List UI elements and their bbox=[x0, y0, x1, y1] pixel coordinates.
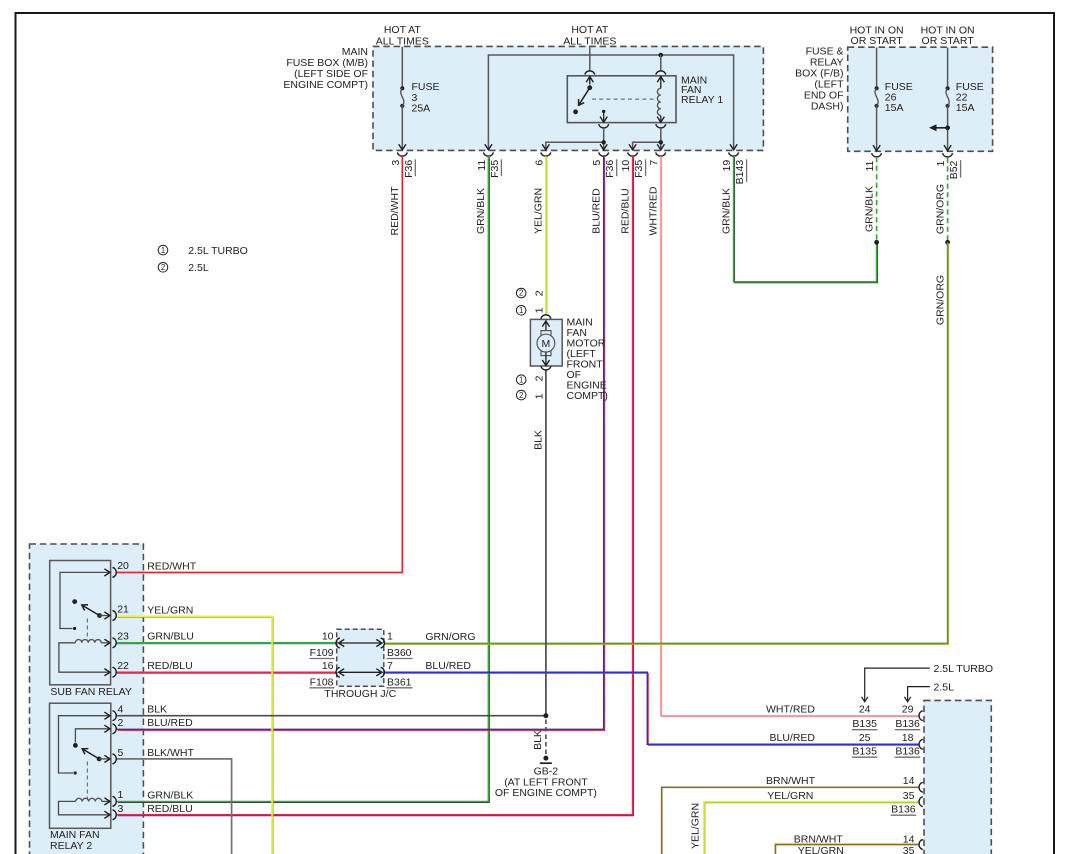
svg-text:2: 2 bbox=[534, 290, 546, 296]
wire RED/BLU pin10 to relay2 pin3 bbox=[117, 156, 634, 816]
svg-text:BLK: BLK bbox=[532, 430, 544, 450]
svg-text:RED/BLU: RED/BLU bbox=[147, 660, 193, 672]
J/C row1 double arrow bbox=[339, 639, 382, 646]
junction pins 10/7 bbox=[659, 140, 663, 144]
wire GRN/BLK pin11 to relay2 pin1 bbox=[117, 156, 490, 802]
right connector cup pin 35 bbox=[919, 797, 923, 807]
connector F36 label bbox=[403, 159, 416, 178]
svg-text:F36: F36 bbox=[403, 160, 415, 178]
svg-text:YEL/GRN: YEL/GRN bbox=[689, 803, 701, 849]
svg-text:B136: B136 bbox=[895, 746, 920, 758]
svg-text:11: 11 bbox=[864, 160, 876, 171]
right connector cup pin 14 bbox=[919, 782, 923, 792]
svg-text:RED/BLU: RED/BLU bbox=[147, 803, 193, 815]
wire GRN/BLK dashed below fuse 26 bbox=[876, 157, 878, 242]
svg-text:F35: F35 bbox=[633, 160, 645, 178]
svg-text:F36: F36 bbox=[604, 160, 616, 178]
sub fan relay wire labels bbox=[147, 560, 197, 672]
svg-text:F35: F35 bbox=[489, 160, 501, 178]
svg-text:35: 35 bbox=[903, 790, 915, 802]
svg-text:B136: B136 bbox=[895, 718, 920, 730]
wire RED/WHT pin3 to sub fan relay pin20 bbox=[117, 156, 402, 572]
svg-text:RED/BLU: RED/BLU bbox=[619, 188, 631, 234]
svg-text:RELAY 2: RELAY 2 bbox=[50, 840, 92, 852]
junction fuse22 branch bbox=[945, 125, 950, 130]
svg-text:GRN/BLU: GRN/BLU bbox=[147, 631, 194, 643]
svg-text:B52: B52 bbox=[948, 160, 960, 179]
wire BRN/WHT to connector pin14 bbox=[662, 787, 919, 854]
svg-text:HOT AT: HOT AT bbox=[571, 24, 609, 36]
fuse 3 25A symbol bbox=[400, 86, 404, 108]
wire GRN/BLU sub fan relay pin23 to J/C bbox=[117, 643, 336, 644]
label MAIN FUSE BOX (M/B) bbox=[283, 46, 368, 91]
svg-text:GRN/ORG: GRN/ORG bbox=[934, 184, 946, 234]
svg-text:YEL/GRN: YEL/GRN bbox=[533, 188, 545, 234]
relay1 coil bbox=[657, 77, 664, 123]
legend circled 2 bbox=[158, 263, 168, 273]
svg-text:BLK: BLK bbox=[532, 730, 544, 750]
svg-text:COMPT): COMPT) bbox=[567, 390, 608, 402]
wire GRN/ORG fuse22 to through J/C bbox=[384, 242, 948, 644]
arrow pin 5 bbox=[600, 144, 607, 150]
sub fan relay pin21 arrow bbox=[104, 612, 110, 619]
junction coil feed bbox=[659, 53, 664, 58]
svg-text:2.5L TURBO: 2.5L TURBO bbox=[934, 663, 994, 675]
sub fan relay contact lower bbox=[73, 627, 76, 630]
ground GB-2 symbol bbox=[540, 756, 552, 764]
connector F108 label bbox=[310, 676, 335, 688]
wire RED/BLU sub fan relay pin22 to J/C bbox=[117, 672, 336, 673]
wire BLU/RED J/C to connector pin 25 bbox=[384, 672, 919, 745]
svg-text:WHT/RED: WHT/RED bbox=[766, 703, 815, 715]
relay2 cup pin 2 bbox=[113, 724, 117, 734]
main fan relay 1 box bbox=[567, 76, 676, 123]
connector cup motor bottom bbox=[541, 366, 551, 370]
svg-text:10: 10 bbox=[620, 160, 632, 172]
through J/C dashed box bbox=[337, 629, 384, 686]
connector cup pin 5 bbox=[599, 152, 609, 156]
svg-text:BLK/WHT: BLK/WHT bbox=[147, 747, 194, 759]
relay2 cup pin 3 bbox=[113, 810, 117, 820]
svg-text:11: 11 bbox=[476, 160, 488, 171]
label MAIN FAN MOTOR bbox=[567, 316, 608, 402]
connector cup pin fb1 bbox=[943, 153, 953, 157]
arrow pin 7 bbox=[657, 144, 664, 150]
svg-text:RED/WHT: RED/WHT bbox=[389, 186, 401, 236]
sub fan relay box bbox=[50, 561, 111, 685]
relay1 switch pivot bbox=[587, 85, 592, 90]
connector cup relay1 switch bottom bbox=[599, 124, 609, 128]
svg-text:1: 1 bbox=[519, 306, 523, 315]
sub fan relay / main fan relay 2 dashed enclosure bbox=[30, 544, 144, 854]
relay2 contact upper bbox=[73, 743, 78, 748]
wire BLK relay2 pin4 to motor ground junction bbox=[117, 715, 546, 717]
svg-text:YEL/GRN: YEL/GRN bbox=[798, 845, 844, 854]
wire relay1 coil pin 7 drop bbox=[660, 142, 662, 149]
svg-text:OF ENGINE COMPT): OF ENGINE COMPT) bbox=[495, 787, 597, 799]
wire fuse3 to pin 3 bbox=[401, 106, 403, 149]
arrow F/B pin 11 bbox=[873, 145, 880, 151]
relay2 cup pin 5 bbox=[113, 754, 117, 764]
relay1 switch output wire bbox=[600, 111, 607, 122]
wire BLU/RED pin5 to relay2 pin2 bbox=[117, 156, 605, 730]
svg-text:18: 18 bbox=[902, 732, 914, 744]
svg-text:SUB FAN RELAY: SUB FAN RELAY bbox=[50, 686, 131, 698]
connector F109 label bbox=[310, 647, 335, 659]
svg-text:B143: B143 bbox=[734, 160, 746, 185]
fuse 22 15A value label bbox=[956, 81, 984, 114]
label MAIN FAN RELAY 2 bbox=[50, 829, 100, 852]
label HOT AT ALL TIMES (fuse 3) bbox=[376, 24, 429, 47]
motor pin ref circled 1 bottom bbox=[516, 375, 526, 385]
sub fan relay coil bbox=[75, 640, 109, 643]
wire GRN/BLK pin19 to fuse26 branch bbox=[734, 156, 878, 283]
arrow into relay1 switch bbox=[586, 76, 593, 85]
arrow F/B pin 1 bbox=[944, 145, 951, 151]
svg-text:1: 1 bbox=[935, 160, 947, 166]
svg-text:15A: 15A bbox=[885, 102, 904, 114]
arrow pin 6 bbox=[542, 144, 549, 150]
svg-text:25A: 25A bbox=[412, 102, 431, 114]
svg-text:GRN/ORG: GRN/ORG bbox=[934, 275, 946, 325]
wire YEL/GRN pin6 to motor bbox=[546, 156, 547, 314]
svg-text:5: 5 bbox=[591, 160, 603, 166]
wire fuse26 to pin 11 bbox=[876, 106, 878, 150]
svg-text:25: 25 bbox=[859, 732, 871, 744]
sub fan relay contact upper bbox=[72, 599, 77, 604]
arrow pin 10 bbox=[629, 144, 636, 150]
arrow pin 19 bbox=[730, 144, 737, 150]
connector cup pin 19 bbox=[729, 152, 739, 156]
branch arrow left bbox=[929, 124, 948, 131]
svg-text:14: 14 bbox=[903, 775, 915, 787]
svg-text:1: 1 bbox=[519, 375, 523, 384]
svg-text:F108: F108 bbox=[310, 676, 334, 688]
sub fan relay cup pin 22 bbox=[113, 667, 117, 677]
fuse F3 feed wire bbox=[401, 47, 403, 89]
svg-text:GRN/BLK: GRN/BLK bbox=[475, 188, 487, 234]
right body connector dashed box bbox=[924, 700, 991, 854]
label HOT AT ALL TIMES (relay 1) bbox=[563, 24, 616, 47]
svg-text:BRN/WHT: BRN/WHT bbox=[794, 834, 844, 846]
main fan relay 2 box bbox=[50, 703, 111, 828]
svg-text:14: 14 bbox=[903, 834, 915, 846]
svg-text:3: 3 bbox=[118, 803, 124, 815]
fuse & relay box (F/B) dashed enclosure bbox=[848, 47, 993, 151]
svg-text:2: 2 bbox=[519, 391, 523, 400]
label HOT IN ON OR START (fuse 26) bbox=[850, 24, 904, 47]
svg-text:B135: B135 bbox=[852, 718, 877, 730]
relay2 pin2 internal wire bbox=[75, 729, 109, 743]
connector F35 label 2 bbox=[633, 159, 646, 178]
wire BLK dashed to ground bbox=[545, 720, 547, 756]
svg-text:BLU/RED: BLU/RED bbox=[425, 660, 471, 672]
legend circled 1 bbox=[158, 245, 168, 255]
wire WHT/RED pin7 to connector B135/B136 pin24 bbox=[661, 156, 920, 717]
svg-text:3: 3 bbox=[390, 160, 402, 166]
svg-text:7: 7 bbox=[387, 660, 393, 672]
connector cup pin 11 bbox=[483, 152, 493, 156]
relay1 switch output contact bbox=[602, 110, 605, 113]
svg-text:2: 2 bbox=[161, 263, 165, 272]
svg-text:YEL/GRN: YEL/GRN bbox=[147, 604, 193, 616]
connector cup relay1 coil top bbox=[656, 71, 666, 75]
relay2 pin3 arrow bbox=[104, 811, 110, 818]
junction BLK ground bbox=[543, 713, 548, 718]
svg-text:2.5L: 2.5L bbox=[188, 262, 209, 274]
svg-text:35: 35 bbox=[903, 845, 915, 854]
relay2 cup pin 1 bbox=[113, 796, 117, 806]
sub fan relay pin20 arrow bbox=[104, 569, 110, 576]
label FUSE & RELAY BOX (F/B) bbox=[795, 46, 844, 113]
svg-text:5: 5 bbox=[118, 747, 124, 759]
svg-text:15A: 15A bbox=[956, 102, 975, 114]
relay2 contact lower bbox=[74, 771, 77, 774]
arrow motor out bbox=[542, 352, 549, 365]
svg-text:F109: F109 bbox=[310, 647, 334, 659]
connector B136 label row3 bbox=[891, 804, 916, 816]
svg-text:1: 1 bbox=[534, 393, 546, 399]
relay1 switch arm bbox=[579, 88, 590, 106]
relay2 cup pin 4 bbox=[113, 711, 117, 721]
relay1 actuating link (dashed) bbox=[592, 98, 655, 100]
motor pin ref circled 1 top bbox=[516, 306, 526, 316]
sub fan relay actuating link bbox=[86, 619, 88, 641]
sub fan relay pin23 arrow bbox=[104, 639, 110, 646]
pins 24/29 labels bbox=[859, 703, 914, 715]
svg-text:16: 16 bbox=[322, 660, 334, 672]
svg-text:1: 1 bbox=[534, 307, 546, 313]
label HOT IN ON OR START (fuse 22) bbox=[921, 24, 975, 47]
wire relay1 out pin 5 drop bbox=[603, 142, 605, 149]
svg-text:7: 7 bbox=[648, 160, 660, 166]
right connector cup pin 14b bbox=[919, 840, 923, 850]
pointer 2.5L bbox=[904, 687, 929, 702]
svg-text:B136: B136 bbox=[891, 804, 916, 816]
wire relay1 switch feed bbox=[589, 46, 591, 71]
svg-text:1: 1 bbox=[387, 631, 393, 643]
sub fan relay pin20 internal wire bbox=[60, 572, 110, 628]
relay2 coil return wire bbox=[59, 801, 110, 814]
wire relay1 out to pins 6/5 bbox=[546, 128, 604, 149]
wire coil top feed bbox=[660, 55, 662, 70]
fuse 26 15A value label bbox=[885, 81, 913, 114]
wire fuse22 to pin 1 bbox=[947, 106, 949, 150]
connector cup motor top bbox=[541, 315, 551, 319]
svg-text:23: 23 bbox=[117, 631, 129, 643]
svg-text:2.5L: 2.5L bbox=[934, 681, 955, 693]
bus wire hot feed relay1 bbox=[488, 55, 733, 149]
wire BRN/WHT 2 to connector pin14 lower bbox=[775, 845, 918, 854]
connector B143 label bbox=[734, 159, 747, 184]
connector cup pin 3 bbox=[397, 152, 407, 156]
motor pin ref circled 2 bottom bbox=[516, 390, 526, 400]
wire BLK/WHT relay2 pin5 down bbox=[117, 759, 232, 854]
junction GRN/ORG bbox=[945, 240, 950, 245]
sub fan relay pivot bbox=[97, 613, 102, 618]
svg-text:HOT AT: HOT AT bbox=[384, 24, 422, 36]
J/C row2 double arrow bbox=[339, 669, 382, 676]
label MAIN FAN RELAY 1 bbox=[681, 75, 723, 107]
svg-text:6: 6 bbox=[533, 160, 545, 166]
svg-text:BLU/RED: BLU/RED bbox=[769, 732, 815, 744]
connector cup pin fb11 bbox=[872, 153, 882, 157]
connector F36 label 2 bbox=[604, 159, 617, 178]
connector cup relay1 coil bottom bbox=[656, 124, 666, 128]
relay2 coil bbox=[76, 798, 110, 801]
sub fan relay cup pin 20 bbox=[113, 567, 117, 577]
J/C cup pin16 bbox=[336, 667, 340, 677]
svg-text:21: 21 bbox=[117, 603, 129, 615]
pins 25/18 labels bbox=[859, 732, 914, 744]
arrow into motor bbox=[542, 320, 549, 333]
connector cup pin 7 bbox=[656, 152, 666, 156]
arrow pin 3 bbox=[399, 144, 406, 150]
connector F35 label bbox=[489, 159, 502, 178]
sub fan relay switch arm bbox=[82, 605, 100, 616]
svg-text:20: 20 bbox=[117, 560, 129, 572]
svg-text:BRN/WHT: BRN/WHT bbox=[766, 775, 816, 787]
svg-text:GRN/BLK: GRN/BLK bbox=[147, 789, 193, 801]
label GB-2 bbox=[495, 766, 597, 800]
connector B135/B136 labels row1 bbox=[852, 718, 920, 730]
relay2 switch arm bbox=[82, 749, 99, 759]
svg-text:29: 29 bbox=[902, 703, 914, 715]
relay1 switch contact open bbox=[573, 109, 578, 114]
svg-text:GRN/BLK: GRN/BLK bbox=[720, 188, 732, 234]
svg-text:GRN/ORG: GRN/ORG bbox=[425, 631, 475, 643]
svg-text:2: 2 bbox=[118, 717, 124, 729]
relay2 pin1 arrow bbox=[104, 798, 110, 805]
svg-text:2.5L TURBO: 2.5L TURBO bbox=[188, 245, 248, 257]
svg-text:ALL TIMES: ALL TIMES bbox=[376, 36, 429, 48]
svg-text:OR START: OR START bbox=[851, 35, 904, 47]
J/C cup pin10 bbox=[336, 638, 340, 648]
svg-text:THROUGH J/C: THROUGH J/C bbox=[324, 688, 396, 700]
svg-text:1: 1 bbox=[118, 789, 124, 801]
main fuse box (M/B) dashed enclosure bbox=[373, 46, 763, 150]
svg-text:BLK: BLK bbox=[147, 704, 167, 716]
relay2 pin numbers bbox=[118, 703, 124, 814]
svg-text:2: 2 bbox=[534, 375, 546, 381]
wire YEL/GRN sub fan relay pin21 down bbox=[117, 616, 273, 854]
fuse 3 25A value label bbox=[412, 81, 440, 114]
main fan motor box bbox=[530, 319, 562, 366]
svg-text:RELAY 1: RELAY 1 bbox=[681, 94, 723, 106]
wire GRN/ORG dashed below fuse 22 bbox=[947, 158, 949, 243]
svg-text:B360: B360 bbox=[387, 647, 412, 659]
svg-text:BLU/RED: BLU/RED bbox=[591, 188, 603, 234]
wire relay1 coil to pins 10/7 bbox=[633, 128, 661, 149]
svg-text:B135: B135 bbox=[852, 746, 877, 758]
svg-text:10: 10 bbox=[322, 631, 334, 643]
svg-text:YEL/GRN: YEL/GRN bbox=[767, 790, 813, 802]
fuse 26 15A symbol bbox=[875, 86, 879, 108]
connector B361 label bbox=[387, 676, 413, 688]
svg-text:B361: B361 bbox=[387, 676, 412, 688]
J/C cup pin7 bbox=[381, 667, 385, 677]
relay2 actuating link bbox=[86, 762, 88, 800]
relay2 pin5 internal wire bbox=[99, 758, 109, 760]
J/C cup pin1 bbox=[381, 638, 385, 648]
arrow pin 11 bbox=[485, 144, 492, 150]
connector cup pin 10 bbox=[628, 152, 638, 156]
connector B360 label bbox=[387, 647, 413, 659]
svg-text:WHT/RED: WHT/RED bbox=[648, 186, 660, 235]
right connector cup pin 25 bbox=[919, 739, 923, 749]
relay2 wire labels bbox=[147, 704, 194, 815]
relay2 pin4 arrow bbox=[104, 712, 110, 719]
motor M symbol bbox=[537, 331, 555, 356]
right connector cup pin 24 bbox=[919, 711, 923, 721]
svg-text:BLU/RED: BLU/RED bbox=[147, 717, 193, 729]
wire YEL/GRN to connector pin35 bbox=[704, 802, 920, 854]
sub fan relay pin21 internal wire bbox=[100, 615, 110, 617]
sub fan relay coil return wire bbox=[59, 643, 110, 672]
wire BLK motor to junction bbox=[545, 370, 547, 716]
pointer 2.5L TURBO bbox=[862, 668, 930, 702]
svg-text:M: M bbox=[542, 338, 551, 350]
relay2 pivot bbox=[97, 757, 102, 762]
relay2 pin5 arrow bbox=[104, 755, 110, 762]
svg-text:ENGINE COMPT): ENGINE COMPT) bbox=[283, 79, 368, 91]
sub fan relay cup pin 21 bbox=[113, 611, 117, 621]
sub fan relay pin numbers bbox=[117, 560, 129, 672]
fuse 26 feed wire bbox=[876, 48, 878, 89]
fuse 22 15A symbol bbox=[946, 86, 950, 108]
connector cup relay1 switch top bbox=[585, 71, 595, 75]
sub fan relay pin22 arrow bbox=[104, 669, 110, 676]
connector cup pin 6 bbox=[541, 152, 551, 156]
junction GRN/BLK bbox=[874, 240, 879, 245]
relay2 pin4 internal wire bbox=[59, 716, 110, 773]
connector B52 label bbox=[948, 160, 961, 179]
svg-text:GRN/BLK: GRN/BLK bbox=[863, 186, 875, 232]
junction pins 6/5 bbox=[602, 140, 606, 144]
svg-text:1: 1 bbox=[161, 246, 165, 255]
connector B135/B136 labels row2 bbox=[852, 746, 920, 758]
svg-text:22: 22 bbox=[117, 660, 129, 672]
svg-text:OR START: OR START bbox=[922, 35, 975, 47]
motor pin ref circled 2 top bbox=[516, 288, 526, 298]
svg-text:RED/WHT: RED/WHT bbox=[147, 560, 197, 572]
svg-text:4: 4 bbox=[118, 703, 124, 715]
svg-text:24: 24 bbox=[859, 703, 871, 715]
svg-text:19: 19 bbox=[721, 160, 733, 172]
sub fan relay cup pin 23 bbox=[113, 638, 117, 648]
fuse 22 feed wire bbox=[947, 48, 949, 89]
svg-text:DASH): DASH) bbox=[811, 101, 844, 113]
svg-text:2: 2 bbox=[519, 289, 523, 298]
relay2 pin2 arrow bbox=[104, 725, 110, 732]
